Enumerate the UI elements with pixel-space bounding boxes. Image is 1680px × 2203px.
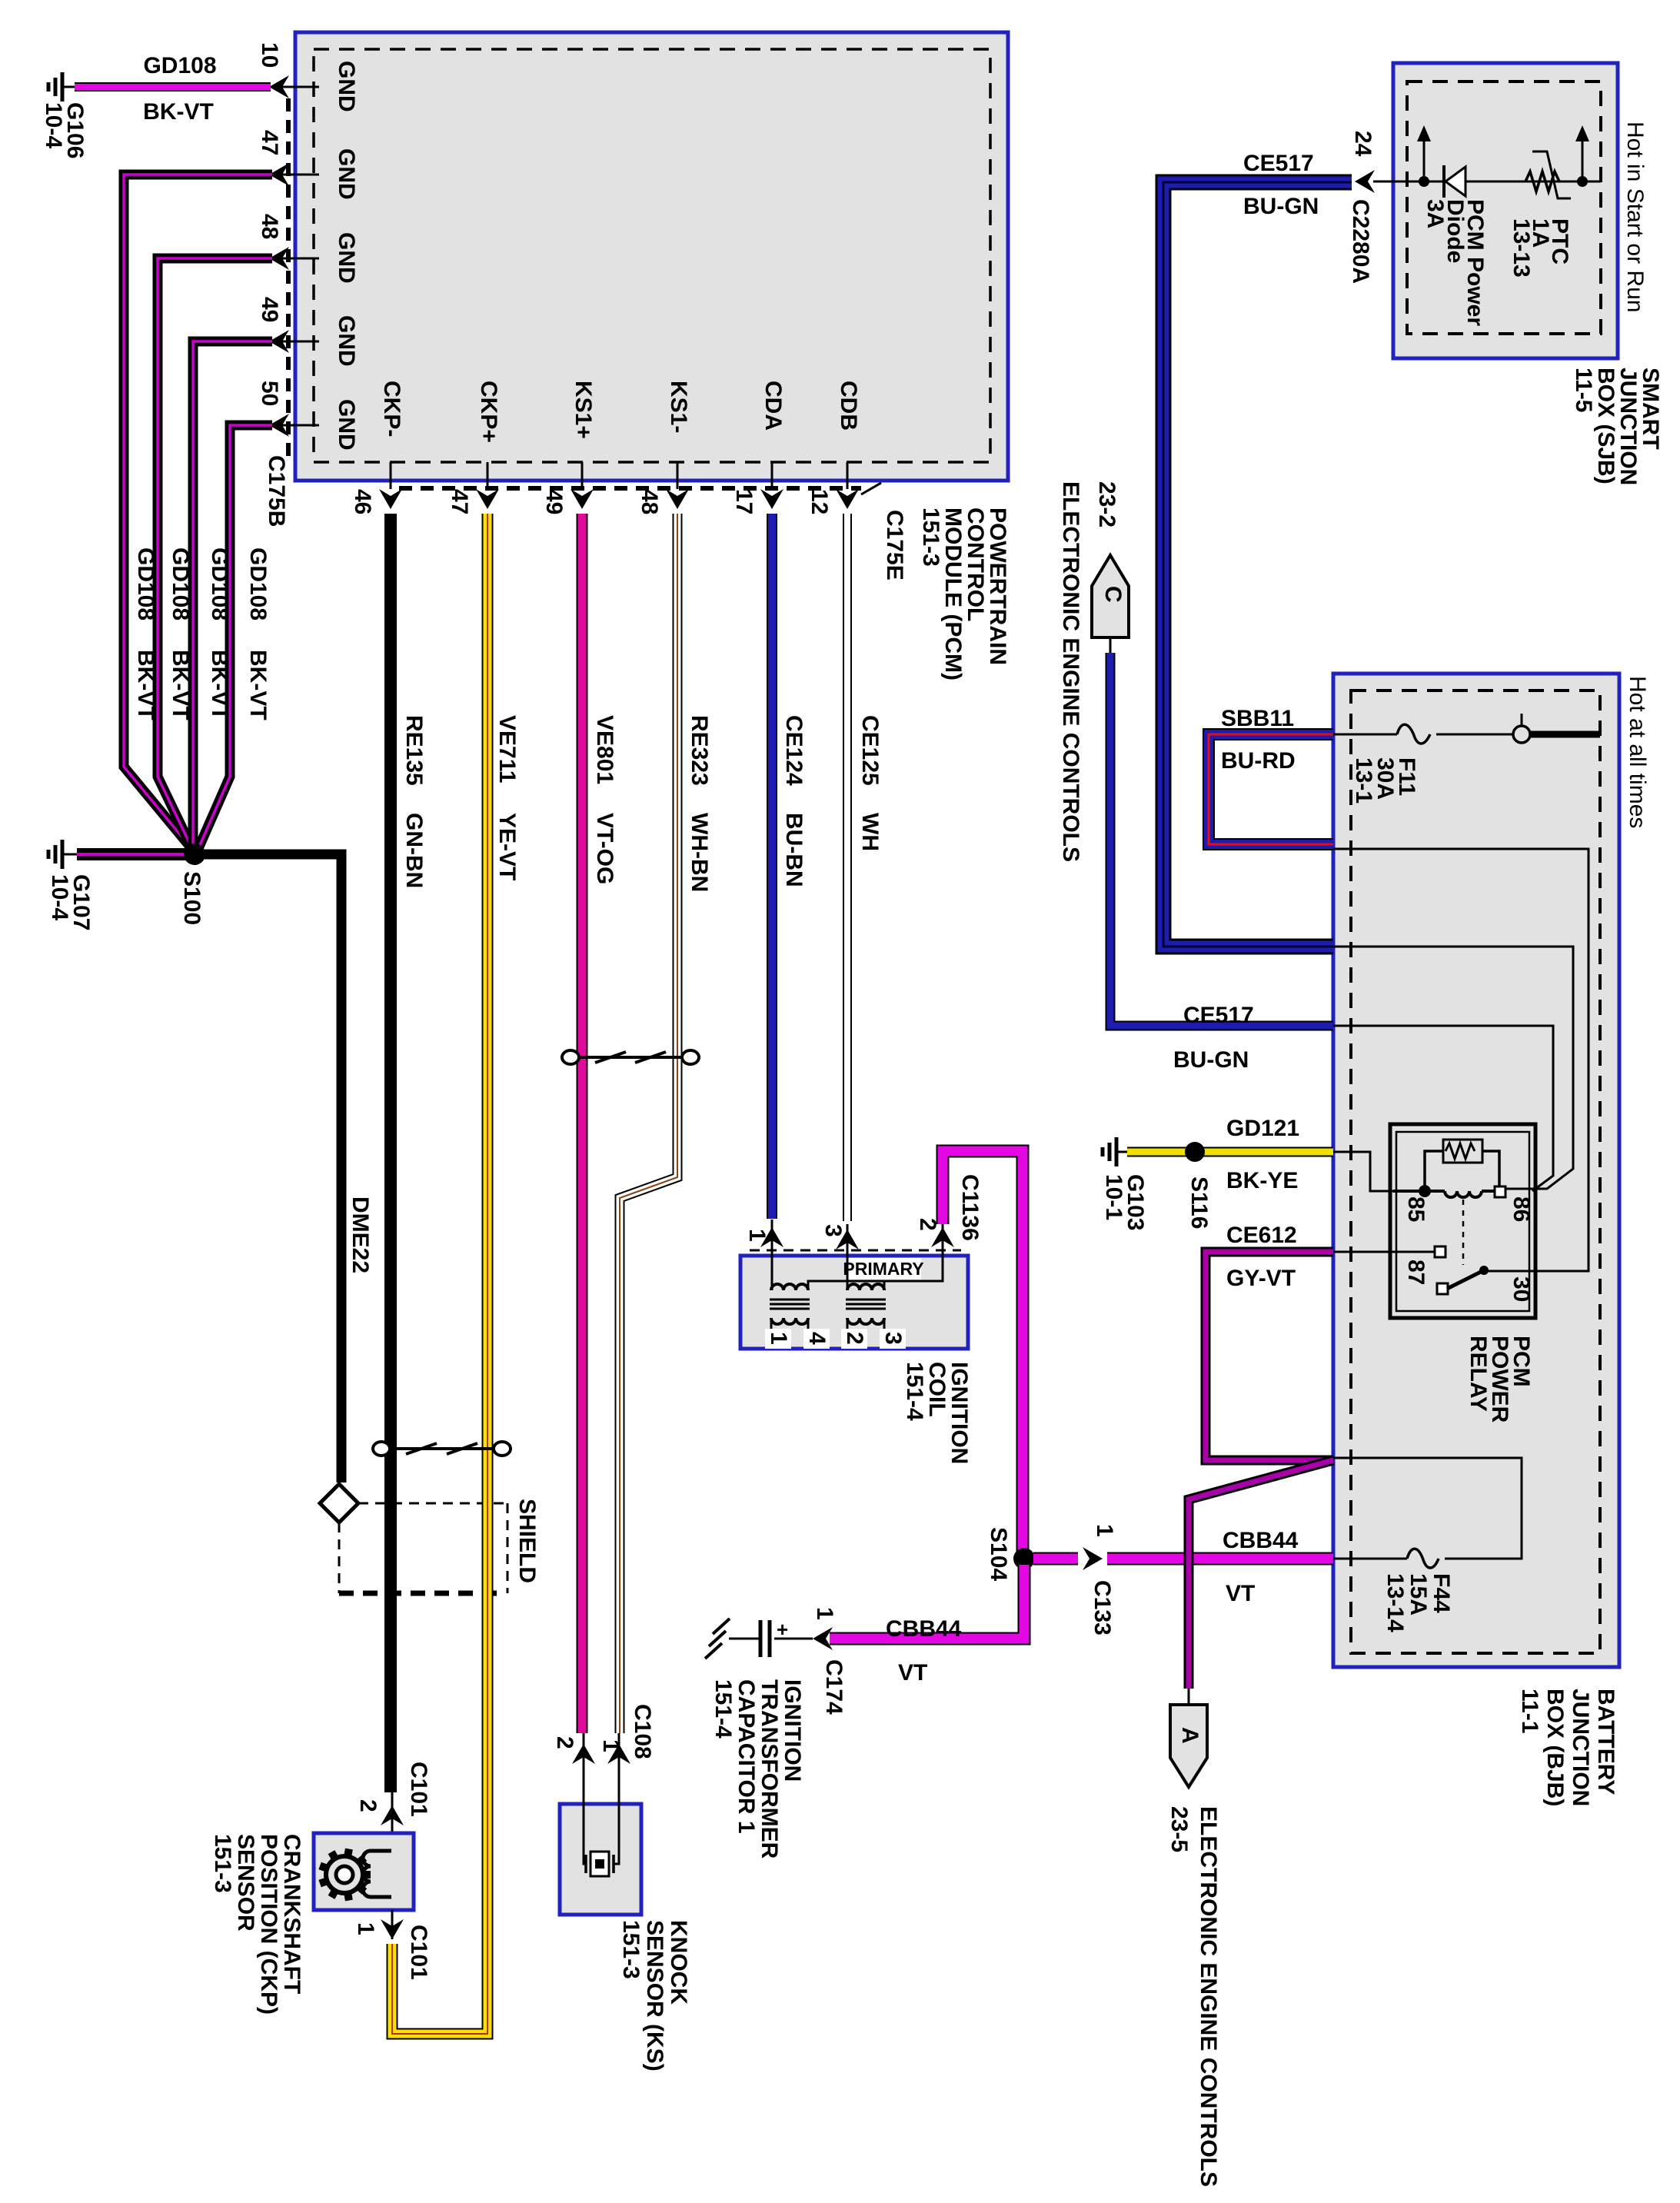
splice S116 label: [1186, 1176, 1212, 1229]
ignition transformer capacitor 1: [705, 1618, 813, 1659]
wire VE801 label: [592, 715, 617, 884]
twisted pair tie KS wires: [562, 1050, 699, 1064]
svg-text:BK-YE: BK-YE: [1226, 1168, 1298, 1193]
wire VE711 label: [494, 715, 520, 880]
PCM pin 48 GND: [257, 214, 359, 284]
svg-text:ELECTRONIC ENGINE CONTROLS: ELECTRONIC ENGINE CONTROLS: [1196, 1806, 1221, 2187]
ignition coil transformer winding: [846, 1284, 886, 1329]
svg-text:GD108: GD108: [207, 547, 232, 621]
PTC label: [1509, 218, 1572, 278]
svg-text:151-4: 151-4: [710, 1679, 736, 1739]
BJB internal flag CE517 to relay 86: [1333, 1026, 1553, 1191]
connector C101 pin 2: [355, 1762, 431, 1847]
PCM pin 12 CDB: [807, 381, 861, 514]
svg-text:CE125: CE125: [857, 715, 883, 786]
wire CE124 label: [781, 715, 807, 887]
svg-text:30: 30: [1509, 1276, 1534, 1302]
ground G107: [48, 840, 77, 869]
svg-text:DME22: DME22: [348, 1196, 373, 1273]
svg-text:IGNITION: IGNITION: [780, 1679, 805, 1782]
PCM pin 47 CKP+: [447, 381, 501, 514]
svg-text:GND: GND: [334, 399, 359, 451]
svg-text:C133: C133: [1090, 1580, 1115, 1636]
svg-text:10-4: 10-4: [47, 874, 72, 920]
smart junction box SJB: [1393, 63, 1618, 358]
BJB internal SBB11 to relay 30: [1333, 849, 1589, 1271]
svg-text:CE124: CE124: [781, 715, 807, 786]
ignition coil terminal 1: [765, 1329, 791, 1349]
svg-text:12: 12: [807, 489, 832, 514]
ignition coil PRIMARY label: [843, 1258, 923, 1280]
svg-text:RE323: RE323: [687, 715, 712, 786]
BJB fuse F11 circuit: [1333, 714, 1600, 744]
SJB terminal arrow right: [1575, 125, 1589, 187]
svg-text:C2280A: C2280A: [1348, 199, 1373, 284]
svg-text:CE517: CE517: [1183, 1003, 1254, 1028]
connector C175B dashed line: [286, 98, 291, 461]
wire RE135 GN-BN: [384, 514, 397, 1792]
ignition transformer capacitor label: [710, 1679, 805, 1859]
svg-text:1: 1: [1092, 1524, 1117, 1537]
BJB internal CE517 to relay 86: [1333, 947, 1573, 1189]
svg-text:1: 1: [744, 1229, 770, 1242]
svg-text:3A: 3A: [1422, 199, 1448, 228]
ignition coil terminal 3: [880, 1329, 906, 1349]
ignition coil terminal 4: [803, 1329, 830, 1349]
battery junction box BJB: [1333, 674, 1619, 1667]
svg-text:49: 49: [257, 297, 282, 322]
relay coil: [1393, 1191, 1495, 1197]
svg-text:GND: GND: [334, 232, 359, 284]
svg-text:10: 10: [257, 42, 282, 68]
svg-text:CE517: CE517: [1243, 151, 1314, 176]
svg-text:13-1: 13-1: [1351, 757, 1376, 804]
svg-text:11-1: 11-1: [1517, 1689, 1542, 1733]
svg-text:2: 2: [842, 1332, 867, 1345]
splice S100: [184, 844, 205, 865]
svg-text:SENSOR (KS): SENSOR (KS): [642, 1920, 667, 2072]
svg-text:1: 1: [598, 1739, 624, 1752]
SJB internal circuit line: [1373, 181, 1601, 183]
wire DME22: [195, 854, 341, 1483]
svg-text:Hot in Start or Run: Hot in Start or Run: [1622, 121, 1648, 312]
wire RE135 label: [401, 715, 427, 888]
svg-text:CDA: CDA: [760, 381, 786, 431]
svg-text:+: +: [777, 1618, 788, 1641]
svg-text:151-3: 151-3: [210, 1834, 235, 1893]
connector C175E dashed line: [399, 486, 861, 491]
connector C108 label: [630, 1704, 655, 1759]
svg-text:CAPACITOR 1: CAPACITOR 1: [734, 1679, 759, 1834]
svg-text:10-1: 10-1: [1101, 1174, 1126, 1220]
wire GD108 BK-VT pin49: [193, 341, 272, 854]
svg-text:KS1-: KS1-: [666, 381, 691, 433]
wire VT to flag A: [1189, 1460, 1333, 1689]
svg-text:CRANKSHAFT: CRANKSHAFT: [279, 1834, 304, 1994]
svg-text:BU-GN: BU-GN: [1243, 194, 1319, 219]
svg-text:85: 85: [1403, 1196, 1429, 1222]
svg-text:11-5: 11-5: [1571, 368, 1596, 412]
svg-text:BU-GN: BU-GN: [1173, 1047, 1249, 1073]
ignition coil box: [740, 1256, 968, 1349]
knock sensor element: [584, 1804, 619, 1876]
svg-text:10-4: 10-4: [41, 102, 66, 148]
shield diamond symbol: [320, 1484, 358, 1522]
PCM module label: [918, 507, 1010, 681]
ground G103: [1103, 1137, 1127, 1166]
svg-text:BK-VT: BK-VT: [168, 650, 193, 720]
SJB terminal arrow left: [1417, 125, 1431, 187]
wire RE323 label: [687, 715, 712, 892]
wire label GD108 BK-VT: [133, 547, 158, 720]
svg-text:BOX (BJB): BOX (BJB): [1542, 1689, 1568, 1806]
splice S116: [1185, 1142, 1205, 1162]
twisted pair tie CKP wires: [373, 1442, 511, 1456]
svg-text:BK-VT: BK-VT: [143, 99, 214, 125]
wire label GD108 BK-VT: [207, 547, 232, 720]
svg-text:17: 17: [731, 489, 757, 514]
svg-text:48: 48: [257, 214, 282, 239]
svg-text:49: 49: [541, 489, 567, 514]
relay armature link: [1462, 1200, 1465, 1265]
svg-text:VE801: VE801: [592, 715, 617, 784]
connector C1136 label: [957, 1174, 983, 1241]
svg-text:CKP-: CKP-: [379, 381, 404, 437]
svg-text:C1136: C1136: [957, 1174, 983, 1241]
wire label GD108 BK-VT: [168, 547, 193, 720]
svg-text:2: 2: [355, 1799, 381, 1812]
ignition coil pin 1: [744, 1220, 783, 1290]
PCM power diode label: [1422, 199, 1488, 326]
svg-text:CBB44: CBB44: [886, 1616, 962, 1642]
electronic engine controls label top: [1058, 481, 1119, 862]
wire GD108 BK-VT pin48: [158, 258, 272, 854]
PCM pin 17 CDA: [731, 381, 786, 514]
svg-text:S100: S100: [179, 871, 205, 925]
fuse F44 label: [1382, 1573, 1454, 1632]
svg-text:GN-BN: GN-BN: [401, 813, 427, 888]
svg-text:23-2: 23-2: [1094, 481, 1119, 527]
ignition coil connector dashed: [750, 1250, 961, 1252]
ignition coil pin 2: [915, 1218, 954, 1266]
BJB internal GD121 to relay 85: [1333, 1152, 1393, 1191]
svg-text:POSITION (CKP): POSITION (CKP): [256, 1834, 281, 2015]
svg-text:C101: C101: [406, 1925, 431, 1980]
wire CBB44 VT C133 to BJB: [1107, 1528, 1333, 1606]
svg-text:50: 50: [257, 381, 282, 406]
svg-text:C108: C108: [630, 1704, 655, 1759]
svg-text:GD108: GD108: [143, 53, 216, 78]
wire GD108 BK-VT pin10: [75, 53, 271, 125]
relay terminal 86: [1495, 1186, 1534, 1222]
svg-text:WH: WH: [857, 813, 883, 851]
CKP sensor label: [210, 1834, 304, 2015]
ground G107 label: [47, 874, 94, 930]
svg-text:SENSOR: SENSOR: [233, 1834, 258, 1932]
splice S104: [1013, 1548, 1035, 1569]
PTC thermistor: [1525, 151, 1571, 198]
wire to ground G107: [77, 848, 195, 860]
svg-text:C175E: C175E: [882, 510, 907, 581]
shield label: [514, 1499, 540, 1583]
wire label GD108 BK-VT: [245, 547, 271, 720]
svg-text:GND: GND: [334, 61, 359, 112]
connector C133: [1083, 1524, 1117, 1636]
svg-text:23-5: 23-5: [1166, 1806, 1192, 1852]
PCM power relay box: [1390, 1124, 1535, 1318]
splice S100 label: [179, 871, 205, 925]
shield dashed box: [339, 1503, 507, 1593]
svg-text:BU-RD: BU-RD: [1221, 748, 1296, 774]
svg-text:RELAY: RELAY: [1465, 1336, 1491, 1412]
PCM pin 49 GND: [257, 297, 359, 367]
svg-text:CDB: CDB: [836, 381, 861, 431]
svg-text:VT-OG: VT-OG: [592, 813, 617, 884]
svg-text:4: 4: [804, 1332, 830, 1345]
wire RE323 WH-BN: [620, 514, 677, 1733]
wire VE801 VT-OG: [577, 514, 588, 1733]
PCM pin 48 KS1-: [637, 381, 691, 514]
ground G106 label: [41, 102, 88, 158]
svg-text:KNOCK: KNOCK: [666, 1920, 691, 2005]
svg-text:3: 3: [820, 1224, 846, 1237]
PCM pin 46 CKP-: [350, 381, 404, 514]
svg-text:GD108: GD108: [245, 547, 271, 621]
svg-text:GND: GND: [334, 315, 359, 367]
SJB box label: [1571, 368, 1663, 485]
svg-text:CE612: CE612: [1226, 1223, 1297, 1248]
svg-text:JUNCTION: JUNCTION: [1568, 1689, 1593, 1806]
svg-text:VE711: VE711: [494, 715, 520, 783]
svg-text:YE-VT: YE-VT: [494, 813, 520, 880]
knock sensor label: [618, 1920, 691, 2072]
svg-text:GD121: GD121: [1226, 1116, 1299, 1141]
svg-text:151-4: 151-4: [902, 1362, 927, 1421]
svg-text:C101: C101: [406, 1762, 431, 1817]
CKP pickup symbol: [363, 1851, 391, 1897]
svg-text:KS1+: KS1+: [571, 381, 596, 439]
ground G103 label: [1101, 1174, 1148, 1230]
svg-text:46: 46: [350, 489, 375, 514]
svg-text:2: 2: [552, 1736, 577, 1749]
svg-text:C174: C174: [821, 1659, 847, 1715]
svg-text:47: 47: [447, 489, 472, 514]
svg-text:GD108: GD108: [133, 547, 158, 621]
svg-text:CBB44: CBB44: [1223, 1528, 1299, 1553]
svg-text:GD108: GD108: [168, 547, 193, 621]
PCM pin 49 KS1+: [541, 381, 596, 514]
connector C175E label: [861, 483, 907, 581]
svg-text:86: 86: [1509, 1196, 1534, 1222]
relay terminal 87: [1333, 1246, 1445, 1285]
connector C101 pin 1: [353, 1910, 431, 1980]
svg-text:SBB11: SBB11: [1221, 706, 1294, 731]
svg-text:1: 1: [353, 1922, 378, 1935]
wire VE711 YE-VT: [392, 514, 487, 2034]
fuse F11 label: [1351, 757, 1419, 804]
svg-text:VT: VT: [898, 1660, 927, 1686]
svg-text:VT: VT: [1226, 1581, 1255, 1606]
CKP gear icon: [320, 1849, 371, 1901]
svg-text:WH-BN: WH-BN: [687, 813, 712, 892]
wire CBB44 VT S104 to C174: [830, 1565, 1024, 1686]
svg-text:87: 87: [1403, 1260, 1429, 1285]
wire CE517 BU-GN from SJB: [1163, 151, 1352, 947]
connector flag C: [1092, 555, 1129, 637]
svg-text:TRANSFORMER: TRANSFORMER: [757, 1679, 782, 1859]
ignition coil transformer winding: [770, 1284, 810, 1329]
ignition coil terminal 2: [841, 1329, 867, 1349]
relay terminal 85: [1403, 1185, 1431, 1222]
wire CBB44 VT S104 to C133: [1033, 1552, 1078, 1566]
svg-text:48: 48: [637, 489, 662, 514]
svg-text:1: 1: [812, 1607, 837, 1620]
svg-text:BATTERY: BATTERY: [1593, 1689, 1618, 1795]
svg-text:SHIELD: SHIELD: [514, 1499, 540, 1583]
ignition coil primary bus: [808, 1266, 943, 1290]
knock sensor box: [560, 1804, 641, 1915]
svg-text:24: 24: [1350, 131, 1376, 157]
wire GD121 BK-YE: [1127, 1116, 1333, 1193]
svg-text:Hot at all times: Hot at all times: [1625, 676, 1650, 828]
svg-text:BK-VT: BK-VT: [207, 650, 232, 720]
wire CE124 BU-BN: [767, 514, 777, 1219]
PCM powertrain control module box: [295, 32, 1008, 481]
svg-text:CKP+: CKP+: [476, 381, 501, 443]
BJB box label: [1517, 1689, 1618, 1806]
connector C175B label: [264, 455, 289, 527]
svg-text:3: 3: [880, 1332, 906, 1345]
svg-text:A: A: [1177, 1727, 1203, 1744]
svg-text:C175B: C175B: [264, 455, 289, 527]
wire C1136 VT coil pin2 to CBB44: [943, 1151, 1023, 1559]
wire CE125 label: [857, 715, 883, 851]
svg-text:13-13: 13-13: [1509, 218, 1534, 278]
svg-text:151-3: 151-3: [618, 1920, 644, 1979]
ground G106: [48, 72, 75, 101]
wire CE517 BU-GN from flag C: [1110, 637, 1333, 1073]
svg-text:GND: GND: [334, 148, 359, 200]
ignition coil label: [902, 1362, 972, 1464]
relay label: [1465, 1336, 1534, 1423]
connector C108 pin 1: [598, 1733, 630, 1804]
svg-text:PRIMARY: PRIMARY: [843, 1259, 923, 1279]
svg-text:1: 1: [766, 1332, 791, 1345]
svg-text:47: 47: [257, 130, 282, 155]
svg-text:ELECTRONIC ENGINE CONTROLS: ELECTRONIC ENGINE CONTROLS: [1058, 481, 1083, 862]
svg-text:151-3: 151-3: [918, 507, 943, 567]
SJB pin 24: [1348, 131, 1376, 284]
PCM power diode: [1444, 165, 1465, 198]
svg-text:15A: 15A: [1406, 1573, 1431, 1616]
relay resistor: [1425, 1140, 1499, 1188]
svg-text:BU-BN: BU-BN: [781, 813, 807, 887]
svg-text:C: C: [1100, 586, 1126, 603]
connector C108 pin 2: [552, 1733, 595, 1804]
relay switch contact 30: [1437, 1266, 1534, 1302]
wire CE612 GY-VT: [1206, 1223, 1333, 1460]
PCM pin 10 GND: [257, 42, 359, 112]
ignition coil pin 3: [820, 1224, 859, 1290]
wire SBB11 BU-RD: [1209, 706, 1333, 844]
PCM pin 47 GND: [257, 130, 359, 200]
wire DME22 label: [348, 1196, 373, 1273]
svg-text:F44: F44: [1429, 1573, 1454, 1613]
crankshaft position sensor box: [314, 1833, 414, 1910]
PCM pin 50 GND: [257, 381, 359, 451]
electronic engine controls label bottom: [1166, 1806, 1221, 2187]
splice S104 label: [986, 1527, 1011, 1581]
connector C174: [812, 1607, 847, 1715]
wire CE125 WH: [843, 514, 852, 1221]
SJB label Hot in Start or Run: [1622, 121, 1648, 312]
svg-text:S116: S116: [1186, 1176, 1212, 1229]
svg-text:GY-VT: GY-VT: [1226, 1266, 1296, 1291]
svg-text:BK-VT: BK-VT: [245, 650, 271, 720]
svg-text:13-14: 13-14: [1382, 1573, 1408, 1632]
wire GD108 BK-VT pin50: [197, 425, 272, 852]
BJB label Hot at all times: [1625, 676, 1650, 828]
connector flag A: [1170, 1689, 1207, 1787]
svg-text:BK-VT: BK-VT: [133, 650, 158, 720]
svg-text:RE135: RE135: [401, 715, 427, 786]
BJB fuse F44 circuit: [1333, 1458, 1522, 1568]
svg-text:S104: S104: [986, 1527, 1011, 1581]
wire GD108 BK-VT pin47: [124, 175, 272, 852]
